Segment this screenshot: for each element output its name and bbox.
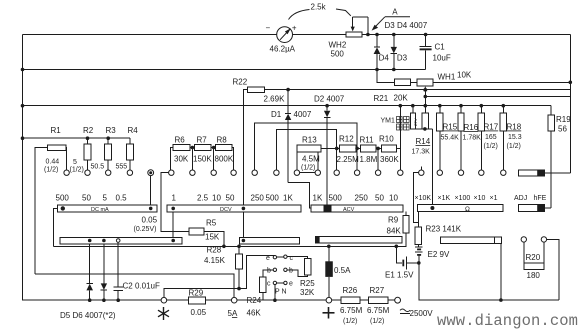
watermark xyxy=(437,312,578,330)
node socket b2 xyxy=(284,268,287,271)
node contact circle ACV 1K-left xyxy=(294,170,299,175)
label x1K xyxy=(438,195,451,202)
svg-text:R2: R2 xyxy=(83,126,94,135)
node junction DCV bar R22 xyxy=(242,207,246,241)
label 2.5k with leaders xyxy=(289,3,351,20)
resistor R6 30K xyxy=(171,136,190,171)
label x10K xyxy=(415,195,432,202)
svg-text:R17: R17 xyxy=(484,123,499,132)
svg-text:R8: R8 xyxy=(217,136,228,145)
resistor R1 0.44 xyxy=(35,126,67,274)
label ACV range 10 xyxy=(389,194,398,203)
switch bar B left xyxy=(60,237,182,244)
node junction bar DCmA left xyxy=(61,206,65,210)
wire ACV tap B xyxy=(276,130,336,171)
label mA 50 xyxy=(82,194,91,203)
svg-text:R14: R14 xyxy=(416,137,431,146)
svg-text:R12: R12 xyxy=(339,135,354,144)
diode D2 4007 xyxy=(314,95,345,205)
label ACV range 1K xyxy=(313,194,323,203)
svg-text:10uF: 10uF xyxy=(433,54,451,63)
svg-text:R6: R6 xyxy=(175,136,186,145)
label x100 xyxy=(455,195,471,202)
resistor R17 165 xyxy=(478,106,499,170)
wire R1-R4 feeder xyxy=(23,137,130,139)
resistor R12 2.25M xyxy=(337,135,361,165)
node contact circle ACV 250v xyxy=(252,170,257,175)
node junction DCV bar 1 xyxy=(171,207,175,241)
svg-text:R21: R21 xyxy=(374,94,389,103)
svg-text:55.4K: 55.4K xyxy=(441,135,460,142)
label ACV range 500 xyxy=(329,194,343,203)
node junction D3 bottom xyxy=(392,68,396,72)
node junction D3 top xyxy=(392,33,396,37)
node junction D6 bottom xyxy=(102,298,106,302)
svg-text:10K: 10K xyxy=(457,71,472,80)
node junction R10 bus xyxy=(399,104,403,108)
label D5 D6 4007 xyxy=(60,311,116,320)
label DCV range 250 xyxy=(251,194,265,203)
svg-text:D4: D4 xyxy=(379,54,390,63)
svg-text:(1/2): (1/2) xyxy=(70,167,84,174)
node contact circle R20 left xyxy=(521,237,526,242)
svg-text:P N: P N xyxy=(275,289,287,296)
node junction R7-R8 xyxy=(212,146,216,170)
node junction C2 bottom xyxy=(116,298,120,302)
label e right xyxy=(289,281,293,288)
node junction R15 top xyxy=(438,104,442,108)
node contact circle mA 0.5 xyxy=(127,170,132,175)
wire second bus y69 xyxy=(23,69,426,71)
svg-text:D3: D3 xyxy=(397,54,408,63)
node contact circle ohm x10 xyxy=(479,170,484,175)
node junction barB D6 xyxy=(102,239,106,243)
node contact circle ACV 10 xyxy=(398,170,403,175)
diode D6 xyxy=(101,244,107,300)
resistor R7 150K xyxy=(190,136,212,164)
svg-text:Ω: Ω xyxy=(465,206,470,213)
wire stub R10 left to contact xyxy=(377,148,379,170)
node contact circle DCV 50 xyxy=(231,170,236,175)
label 0.05 xyxy=(142,216,158,225)
svg-text:ZTV: ZTV xyxy=(413,118,418,126)
label c left xyxy=(267,281,271,288)
svg-text:32K: 32K xyxy=(300,288,315,297)
label x1 xyxy=(490,195,498,202)
node junction D2 top xyxy=(325,104,329,108)
svg-text:ACV: ACV xyxy=(343,207,355,213)
node junction R16 top xyxy=(459,104,463,108)
svg-text:(1/2): (1/2) xyxy=(343,318,357,325)
svg-text:500: 500 xyxy=(331,50,345,59)
svg-text:500: 500 xyxy=(329,194,343,203)
resistor R10 360K xyxy=(379,106,400,170)
node junction C1 top xyxy=(424,33,428,37)
svg-text:500: 500 xyxy=(56,194,70,203)
svg-text:5A: 5A xyxy=(228,309,238,318)
node contact circle mA common xyxy=(148,170,154,176)
node A junction dot xyxy=(366,33,370,37)
svg-text:×10: ×10 xyxy=(474,195,486,202)
svg-text:www.diangon.com: www.diangon.com xyxy=(437,312,578,330)
label mA 0.5 xyxy=(116,194,128,203)
node contact circle ohm x10K xyxy=(414,167,424,227)
svg-text:2.5: 2.5 xyxy=(197,194,209,203)
battery E2 9V xyxy=(415,247,450,263)
node junction c2 bus xyxy=(273,298,277,302)
label hFE xyxy=(534,195,547,202)
node junction wiper y96 xyxy=(424,95,428,99)
node socket b1 xyxy=(273,268,276,271)
node A label with arrow leader xyxy=(372,8,410,31)
wire y273 line xyxy=(35,274,234,298)
node junction bar DCmA right xyxy=(149,207,153,211)
node contact circle R20 right xyxy=(541,237,546,242)
switch bar ohm xyxy=(417,205,503,213)
label DCV 10 xyxy=(212,194,221,203)
node junction bottom right xyxy=(499,298,503,302)
node junction R11-R10 xyxy=(376,147,380,151)
svg-text:D2 4007: D2 4007 xyxy=(314,95,345,104)
node junction R28 bottom xyxy=(237,287,241,291)
label mA 5 xyxy=(103,194,108,203)
svg-text:180: 180 xyxy=(527,271,541,280)
svg-text:0.05: 0.05 xyxy=(191,308,207,317)
switch bar DC mA xyxy=(53,205,156,247)
svg-text:b: b xyxy=(267,268,271,275)
resistor R25 32K xyxy=(287,259,315,298)
fuse 0.5A xyxy=(325,246,351,297)
node junction D4 bottom xyxy=(375,68,379,72)
svg-text:150K: 150K xyxy=(193,155,212,164)
switch bar B right xyxy=(440,237,501,300)
wire right bus x570 xyxy=(569,35,571,174)
node junction YM1 top xyxy=(411,104,415,108)
node junction left bus y105 xyxy=(21,104,25,108)
svg-text:2.5k: 2.5k xyxy=(311,3,327,12)
wire COM to R29 xyxy=(167,299,189,301)
resistor R20 180 xyxy=(524,242,544,280)
node socket e1 xyxy=(273,256,276,259)
svg-text:84K: 84K xyxy=(387,227,402,236)
svg-text:C1: C1 xyxy=(435,43,446,52)
svg-text:(1/2): (1/2) xyxy=(301,165,315,172)
wire bus y105 xyxy=(23,105,552,107)
node junction D5 bottom xyxy=(88,298,92,302)
label 2500V xyxy=(400,309,433,318)
node socket c1 xyxy=(284,255,287,258)
diode D1 4007 xyxy=(271,90,312,183)
svg-text:6.75M: 6.75M xyxy=(340,306,363,315)
node contact circle ACV pair right xyxy=(315,170,320,175)
resistor R27 6.75M xyxy=(360,286,395,325)
label ACV range 250 xyxy=(355,194,369,203)
svg-text:50: 50 xyxy=(82,194,91,203)
wire left bus xyxy=(22,35,24,301)
node junction WH1 line right xyxy=(569,81,573,85)
node junction rail R9 xyxy=(395,245,399,249)
resistor R15 55.4K xyxy=(437,106,460,170)
node contact circle ohm x1 xyxy=(501,170,506,175)
label c top xyxy=(290,255,294,262)
wire e1-c1 xyxy=(277,256,284,258)
wire DCV1 contact to R5 xyxy=(161,173,189,232)
svg-text:×1: ×1 xyxy=(490,195,498,202)
svg-text:R18: R18 xyxy=(507,123,522,132)
resistor R13 4.5M xyxy=(297,136,340,173)
svg-text:R9: R9 xyxy=(388,216,399,225)
wire right corner up xyxy=(547,239,559,300)
node contact circle ACV 250 xyxy=(354,170,359,175)
svg-text:800K: 800K xyxy=(215,155,234,164)
svg-text:E2 9V: E2 9V xyxy=(428,250,450,259)
node junction rail fuse xyxy=(327,245,331,249)
label DCV range 500 xyxy=(266,194,280,203)
switch bar B acv xyxy=(316,237,403,243)
label P N xyxy=(275,289,287,296)
svg-text:46.2µA: 46.2µA xyxy=(270,45,296,54)
node contact circle DCV 1 xyxy=(169,170,174,175)
node contact circle ohm x1K xyxy=(437,170,442,175)
label YM1 xyxy=(381,117,410,131)
label 5A xyxy=(228,309,238,318)
resistor R2 5 xyxy=(70,126,94,174)
svg-text:R16: R16 xyxy=(464,123,479,132)
svg-text:E1 1.5V: E1 1.5V xyxy=(385,271,414,280)
varistor YM1 xyxy=(410,106,418,129)
node contact circle mA 5 xyxy=(106,170,111,175)
battery E1 1.5V xyxy=(385,246,419,279)
svg-text:R3: R3 xyxy=(106,126,117,135)
svg-text:R29: R29 xyxy=(189,289,204,298)
wire top bus xyxy=(23,34,571,36)
wire rail y246 xyxy=(53,245,396,247)
svg-text:R19: R19 xyxy=(556,115,571,124)
svg-text:R25: R25 xyxy=(300,279,315,288)
svg-text:46K: 46K xyxy=(247,309,262,318)
switch bar ACV xyxy=(311,205,403,213)
node contact circle ohm x100 xyxy=(458,170,463,175)
switch bar B mid xyxy=(240,237,300,244)
svg-text:1K: 1K xyxy=(313,194,323,203)
svg-text:R22: R22 xyxy=(233,78,248,87)
svg-text:6.75M: 6.75M xyxy=(367,306,390,315)
label b right xyxy=(289,268,293,275)
wire bus y89 xyxy=(264,89,570,91)
wire 5A to plus bus xyxy=(237,299,326,301)
svg-text:10: 10 xyxy=(389,194,398,203)
svg-text:1.78K: 1.78K xyxy=(463,135,482,142)
wire common contact drop xyxy=(150,176,152,209)
label plus xyxy=(323,307,335,319)
svg-text:C2 0.01uF: C2 0.01uF xyxy=(123,282,160,291)
svg-text:5: 5 xyxy=(103,194,108,203)
resistor R3 50.5 xyxy=(91,126,117,171)
svg-text:e: e xyxy=(289,281,293,288)
node junction rail R5 xyxy=(222,245,226,249)
resistor R9 84K xyxy=(387,212,410,247)
svg-text:R15: R15 xyxy=(443,123,458,132)
potentiometer WH2 500 xyxy=(329,17,368,59)
wire WH1 wiper drop xyxy=(423,86,427,113)
capacitor C2 0.01uF xyxy=(113,242,160,300)
wire stub R11 left to contact xyxy=(356,148,358,170)
label DCV 2.5 xyxy=(197,194,209,203)
diode D5 xyxy=(86,244,93,300)
svg-text:20K: 20K xyxy=(394,94,409,103)
node junction R18 top xyxy=(502,104,506,108)
svg-text:15K: 15K xyxy=(205,233,220,242)
svg-text:R27: R27 xyxy=(370,286,385,295)
resistor R5 15K xyxy=(189,219,224,247)
node junction ohm bar xyxy=(430,206,434,210)
svg-text:R7: R7 xyxy=(197,136,208,145)
wire bottom bus xyxy=(23,299,162,301)
svg-text:(1/2): (1/2) xyxy=(44,167,58,174)
svg-text:R5: R5 xyxy=(206,219,217,228)
svg-text:R26: R26 xyxy=(343,286,358,295)
wire ACV tap A xyxy=(255,123,357,170)
svg-text:hFE: hFE xyxy=(534,195,547,202)
svg-text:R10: R10 xyxy=(379,135,394,144)
label star xyxy=(158,307,169,320)
svg-text:WH2: WH2 xyxy=(329,41,347,50)
resistor R26 6.75M xyxy=(332,286,363,325)
svg-text:4.15K: 4.15K xyxy=(204,256,226,265)
label ADJ xyxy=(514,195,527,202)
node contact circle mA 500 xyxy=(64,170,69,175)
svg-text:50: 50 xyxy=(226,194,235,203)
svg-text:56: 56 xyxy=(558,125,567,134)
svg-text:e: e xyxy=(266,255,270,262)
potentiometer WH1 10K xyxy=(417,71,570,86)
node junction R12-R11 xyxy=(355,147,359,151)
svg-text:R28: R28 xyxy=(207,246,222,255)
resistor R11 1.8M xyxy=(360,136,382,165)
svg-text:250: 250 xyxy=(355,194,369,203)
svg-text:R4: R4 xyxy=(128,126,139,135)
wire bus y96 xyxy=(425,96,570,98)
svg-text:DC mA: DC mA xyxy=(91,207,109,213)
label DCV range 1K xyxy=(283,194,293,203)
svg-text:×10K: ×10K xyxy=(415,195,432,202)
label mA 500 xyxy=(56,194,70,203)
switch bar hFE top xyxy=(518,170,570,176)
node terminal 5A xyxy=(231,297,237,303)
node junction E1 E2 xyxy=(417,261,421,265)
label x10 xyxy=(474,195,486,202)
resistor R16 1.78K xyxy=(458,106,481,170)
wire stub R12 left to contact xyxy=(336,148,338,170)
capacitor C1 10uF xyxy=(420,35,451,70)
svg-text:1: 1 xyxy=(172,194,177,203)
wire c1 to R25 xyxy=(287,257,308,259)
node junction left bus y138 xyxy=(21,136,25,140)
svg-text:165: 165 xyxy=(485,134,497,141)
svg-text:360K: 360K xyxy=(380,155,399,164)
svg-text:10: 10 xyxy=(212,194,221,203)
svg-text:×1K: ×1K xyxy=(438,195,451,202)
svg-text:(1/2): (1/2) xyxy=(370,318,384,325)
node junction R2 top xyxy=(86,136,90,140)
resistor R22 xyxy=(233,78,286,205)
svg-text:0.5A: 0.5A xyxy=(334,266,351,275)
resistor R4 555 xyxy=(116,126,139,171)
node junction wiper y105 xyxy=(424,104,428,108)
svg-text:WH1: WH1 xyxy=(438,73,456,82)
node contact open barB C2 xyxy=(116,239,120,243)
node socket e2 xyxy=(284,281,287,284)
svg-text:0.44: 0.44 xyxy=(46,159,60,166)
node terminal 2500V xyxy=(395,297,401,303)
svg-text:2500V: 2500V xyxy=(410,309,434,318)
svg-text:(1/2): (1/2) xyxy=(484,143,498,150)
svg-text:ADJ: ADJ xyxy=(514,195,527,202)
resistor R18 15.3 xyxy=(500,106,522,170)
resistor R29 0.05 xyxy=(188,289,231,318)
svg-text:4.5M: 4.5M xyxy=(302,155,320,164)
wire c2-e2 xyxy=(277,282,284,284)
svg-text:×100: ×100 xyxy=(455,195,471,202)
wire c2 drop xyxy=(274,285,276,301)
svg-text:1.8M: 1.8M xyxy=(360,155,378,164)
svg-text:50.5: 50.5 xyxy=(91,164,105,171)
svg-text:D5 D6 4007(*2): D5 D6 4007(*2) xyxy=(60,311,116,320)
svg-text:c: c xyxy=(267,281,271,288)
svg-text:555: 555 xyxy=(116,164,128,171)
resistor R21 20K xyxy=(374,79,418,103)
svg-text:c: c xyxy=(290,255,294,262)
node junction barB right xyxy=(171,239,175,243)
svg-text:−: − xyxy=(266,24,271,33)
svg-text:0.5: 0.5 xyxy=(116,194,128,203)
svg-text:15.3: 15.3 xyxy=(508,134,522,141)
svg-text:1K: 1K xyxy=(283,194,293,203)
node junction D4 top xyxy=(375,33,379,37)
resistor R28 4.15K xyxy=(204,246,242,289)
label DCV 1 xyxy=(172,194,177,203)
node junction D1 top xyxy=(286,88,290,92)
resistor R8 800K xyxy=(211,136,234,171)
svg-text:R13: R13 xyxy=(302,136,317,145)
svg-text:0.05: 0.05 xyxy=(142,216,158,225)
svg-text:b: b xyxy=(289,268,293,275)
resistor R24 46K xyxy=(247,270,274,318)
svg-text:R1: R1 xyxy=(51,126,62,135)
svg-text:A: A xyxy=(392,8,398,17)
node contact circle DCV 10 xyxy=(211,170,216,175)
label e top xyxy=(266,255,270,262)
resistor R23 141K xyxy=(415,211,462,246)
svg-text:R23 141K: R23 141K xyxy=(426,225,462,234)
wire drop to R21 line xyxy=(377,70,394,83)
svg-text:2.69K: 2.69K xyxy=(264,95,286,104)
label DCV 50 xyxy=(226,194,235,203)
label D3 D4 4007 xyxy=(385,21,428,30)
node junction left bus y69 xyxy=(21,68,25,72)
svg-text:D3 D4 4007: D3 D4 4007 xyxy=(385,21,428,30)
node junction R6-R7 xyxy=(191,146,195,170)
op meter M1 46.2uA xyxy=(266,24,297,54)
node junction barB mid xyxy=(242,239,246,243)
svg-text:R20: R20 xyxy=(526,253,541,262)
node terminal plus xyxy=(326,297,332,303)
node junction R17 top xyxy=(480,104,484,108)
node contact circle ACV 50 xyxy=(375,170,380,175)
svg-text:YM1: YM1 xyxy=(381,118,396,125)
node contact circle mA 50 xyxy=(85,170,90,175)
resistor R19 56 xyxy=(548,106,571,208)
